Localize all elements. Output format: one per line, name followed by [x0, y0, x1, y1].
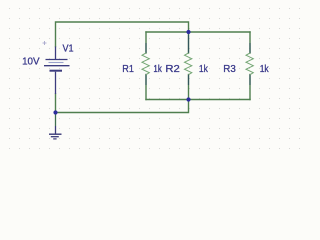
- svg-text:10V: 10V: [22, 57, 40, 68]
- svg-text:R2: R2: [165, 64, 180, 75]
- svg-text:R1: R1: [122, 64, 134, 75]
- svg-text:1k: 1k: [199, 64, 209, 75]
- svg-text:V1: V1: [63, 44, 74, 55]
- svg-text:1k: 1k: [153, 64, 162, 75]
- svg-text:R3: R3: [223, 64, 236, 75]
- svg-text:1k: 1k: [260, 64, 270, 75]
